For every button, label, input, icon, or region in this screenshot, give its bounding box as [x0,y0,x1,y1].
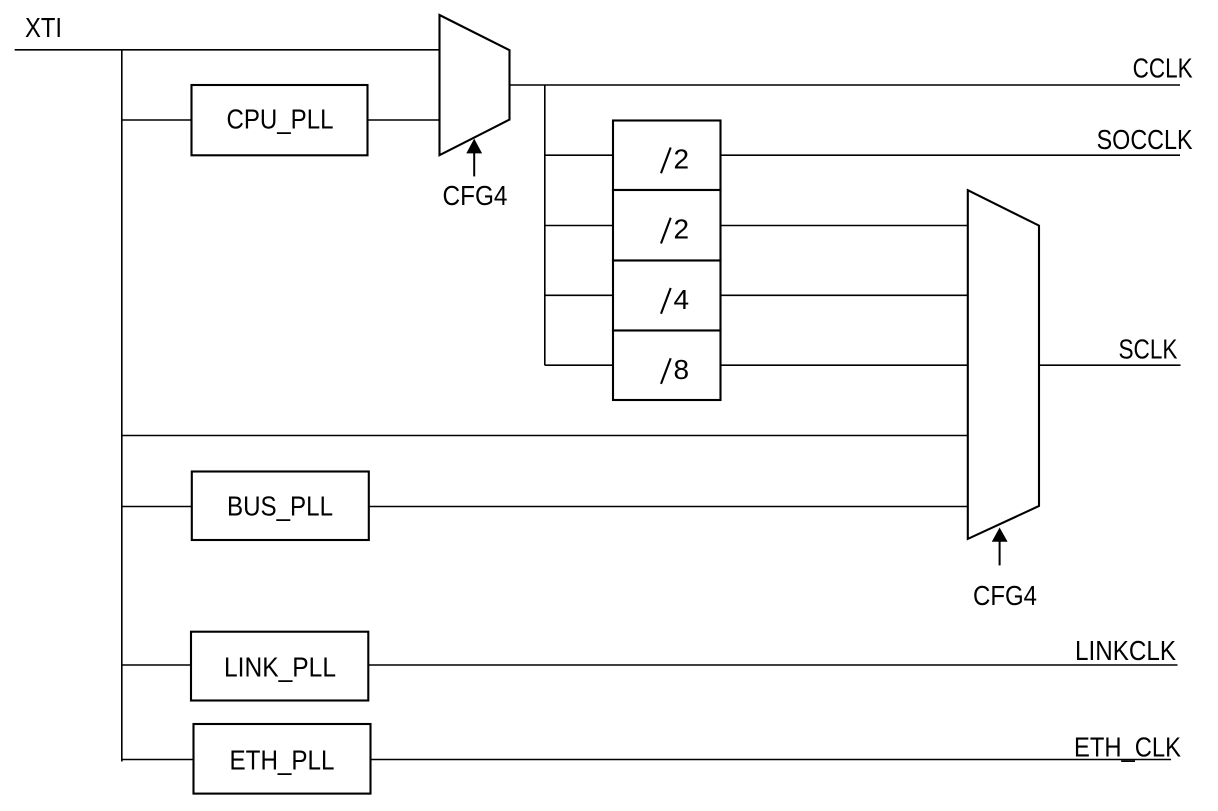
svg-text:SOCCLK: SOCCLK [1097,124,1193,155]
wire: mux U2 output / SCLK net [1039,364,1181,366]
svg-text:CFG4: CFG4 [973,580,1037,611]
svg-text:CPU_PLL: CPU_PLL [227,104,334,135]
block ETH_PLL [194,724,371,794]
svg-text:SCLK: SCLK [1119,334,1178,365]
wire: D4 output to mux U2 [721,364,968,366]
wire: CPU_PLL output to mux U1 [368,119,441,121]
wire: XTI vertical trunk [121,50,123,762]
mux U2 (system clock mux) [968,190,1039,539]
svg-text:2: 2 [674,143,690,174]
mux U1 (CPU clock mux) [440,15,510,155]
svg-text:4: 4 [674,284,690,315]
wire: LINK_PLL input [122,664,192,666]
wire: BUS_PLL input [122,506,193,508]
block LINK_PLL [191,632,368,701]
wire: input to divider D3 [545,294,614,296]
wire: BUS_PLL output to mux U2 [369,506,968,508]
wire: LINK_PLL output / LINKCLK net [368,664,1177,666]
wire: ETH_PLL output / ETH_CLK net [371,759,1172,761]
wire: input to divider D1 [545,154,614,156]
wire: D3 output to mux U2 [721,294,968,296]
wire: D2 output to mux U2 [721,225,968,227]
svg-text:BUS_PLL: BUS_PLL [227,491,333,522]
svg-text:CFG4: CFG4 [443,180,508,211]
svg-text:2: 2 [674,214,690,245]
wire: mux U1 output / CCLK net [510,84,1181,86]
wire: XTI bypass to mux U2 [122,435,968,437]
wire: CPU_PLL input [122,119,192,121]
wire: input to divider D2 [545,225,614,227]
wire: XTI input line [15,49,441,51]
svg-text:LINK_PLL: LINK_PLL [224,651,336,682]
svg-text:ETH_PLL: ETH_PLL [230,744,335,775]
svg-text:8: 8 [674,354,690,385]
block BUS_PLL [192,472,369,541]
block CPU_PLL [192,85,368,155]
svg-text:LINKCLK: LINKCLK [1075,635,1176,666]
divider D3 /4 [613,261,721,331]
svg-text:CCLK: CCLK [1133,53,1193,84]
wire: divider branch vertical [544,85,546,365]
wire: ETH_PLL input [122,759,194,761]
divider D2 /2 [613,190,721,261]
wire: D1 output / SOCCLK net [721,154,1181,156]
divider D1 /2 [613,121,721,191]
arrow: CFG4 select into mux U2 [992,528,1008,566]
svg-text:ETH_CLK: ETH_CLK [1074,731,1181,762]
divider D4 /8 [613,331,721,401]
arrow: CFG4 select into mux U1 [466,139,482,177]
svg-text:XTI: XTI [25,12,62,43]
wire: input to divider D4 [545,364,614,366]
